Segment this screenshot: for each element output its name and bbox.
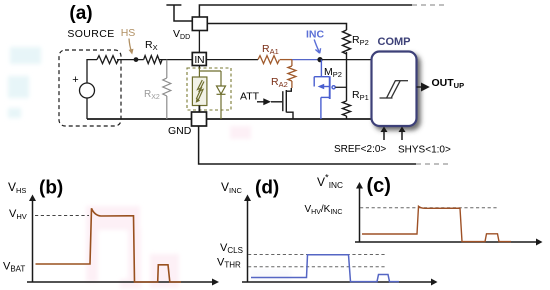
svg-text:+: + xyxy=(72,74,78,86)
svg-text:ATT: ATT xyxy=(240,91,260,103)
svg-text:(c): (c) xyxy=(367,175,391,197)
svg-text:HS: HS xyxy=(121,27,136,39)
svg-text:COMP: COMP xyxy=(378,36,411,48)
svg-text:SHYS<1:0>: SHYS<1:0> xyxy=(398,145,451,156)
svg-text:(a): (a) xyxy=(69,3,92,24)
svg-text:IN: IN xyxy=(194,54,204,66)
svg-text:SOURCE: SOURCE xyxy=(67,28,114,40)
svg-text:(d): (d) xyxy=(255,178,279,199)
svg-text:(b): (b) xyxy=(39,178,63,199)
svg-text:INC: INC xyxy=(306,29,325,41)
svg-text:GND: GND xyxy=(168,125,192,137)
svg-text:SREF<2:0>: SREF<2:0> xyxy=(334,144,386,155)
